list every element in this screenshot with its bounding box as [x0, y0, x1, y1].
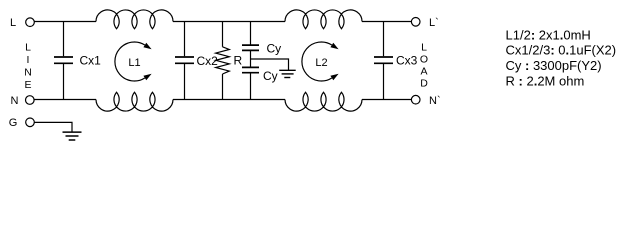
svg-text:LOAD: LOAD [420, 42, 428, 90]
L2 bottom winding [285, 92, 362, 111]
inductor L1 (common-mode choke) [96, 10, 173, 111]
svg-text:R: R [234, 54, 243, 68]
wire L terminal to L1 (top rail left) [34, 21, 96, 23]
L1 bottom winding [96, 92, 173, 111]
capacitor Cy (upper) [242, 42, 281, 56]
L1 flux arrow [115, 42, 145, 81]
capacitor Cx1 [54, 54, 101, 68]
wire Cx1 top branch [63, 22, 65, 57]
svg-text:Cx1/2/3: 0.1uF(X2): Cx1/2/3: 0.1uF(X2) [506, 42, 617, 57]
svg-text:Cx2: Cx2 [197, 54, 219, 68]
wire Cy midpoint [250, 51, 252, 67]
node L (line input terminal) [10, 17, 34, 29]
svg-text:L`: L` [429, 17, 439, 29]
ground (Y-capacitor earth symbol) [279, 70, 296, 77]
wire top rail L2 to L' [362, 21, 411, 23]
ground (input earth symbol) [63, 132, 82, 140]
wire Cy top branch [250, 22, 252, 46]
wire top rail L1 to L2 [173, 21, 285, 23]
wire N terminal to L1 (bottom rail left) [34, 99, 96, 101]
node L' (line output terminal) [411, 17, 438, 29]
wire Cx2 top branch [184, 22, 186, 57]
wire Cx3 top branch [383, 22, 385, 57]
node G (ground terminal) [9, 117, 35, 129]
L1 top winding [96, 10, 173, 29]
wire Cy midpoint to earth [251, 59, 289, 70]
svg-text:Cx3: Cx3 [396, 54, 418, 68]
svg-text:LINE: LINE [24, 42, 32, 92]
svg-text:Cy: Cy [263, 69, 278, 83]
svg-text:G: G [9, 117, 18, 129]
node N' (neutral output terminal) [411, 95, 440, 107]
resistor R [216, 47, 243, 74]
svg-text:N`: N` [429, 95, 441, 107]
wire Cx3 bottom branch [383, 64, 385, 100]
wire R bottom branch [222, 74, 224, 100]
wire Cx1 bottom branch [63, 64, 65, 100]
svg-text:Cy: Cy [267, 42, 282, 56]
wire Cy bottom branch [250, 73, 252, 99]
svg-text:L: L [10, 17, 16, 29]
capacitor Cy (lower) [242, 67, 278, 83]
L2 top winding [285, 10, 362, 29]
svg-text:L1/2: 2x1.0mH: L1/2: 2x1.0mH [506, 27, 591, 42]
wire G terminal to earth [34, 122, 72, 131]
inductor L2 (common-mode choke) [285, 10, 362, 111]
capacitor Cx3 [374, 54, 418, 68]
wire bottom rail L1 to L2 [173, 99, 285, 101]
wire R top branch [222, 22, 224, 47]
svg-text:N: N [11, 95, 19, 107]
svg-text:Cy : 3300pF(Y2): Cy : 3300pF(Y2) [506, 58, 602, 73]
svg-text:R : 2.2M ohm: R : 2.2M ohm [506, 73, 585, 88]
wire Cx2 bottom branch [184, 64, 186, 100]
capacitor Cx2 [175, 54, 218, 68]
node N (neutral input terminal) [11, 95, 35, 107]
svg-text:Cx1: Cx1 [80, 54, 102, 68]
svg-text:L2: L2 [315, 57, 327, 69]
svg-text:L1: L1 [128, 57, 140, 69]
wire bottom rail L2 to N' [362, 99, 411, 101]
L2 flux arrow [302, 42, 332, 81]
